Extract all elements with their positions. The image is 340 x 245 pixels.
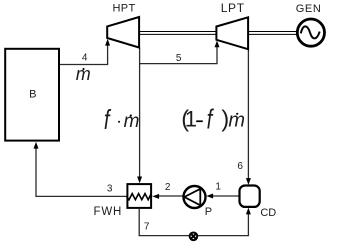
svg-text:3: 3: [107, 183, 113, 194]
svg-text:7: 7: [144, 222, 150, 233]
svg-text:LPT: LPT: [221, 1, 245, 15]
svg-text:CD: CD: [260, 207, 276, 219]
svg-text:5: 5: [176, 53, 182, 64]
svg-text:4: 4: [82, 52, 88, 63]
svg-text:B: B: [29, 89, 36, 101]
svg-text:1: 1: [185, 107, 197, 132]
svg-text:HPT: HPT: [112, 3, 135, 15]
svg-text:m: m: [76, 64, 91, 84]
svg-text:6: 6: [237, 161, 243, 172]
svg-text:2: 2: [165, 182, 171, 193]
svg-text:FWH: FWH: [94, 206, 123, 218]
svg-text:m: m: [124, 111, 140, 132]
svg-text:P: P: [205, 206, 212, 218]
svg-text:1: 1: [215, 182, 221, 193]
svg-text:GEN: GEN: [296, 3, 322, 15]
